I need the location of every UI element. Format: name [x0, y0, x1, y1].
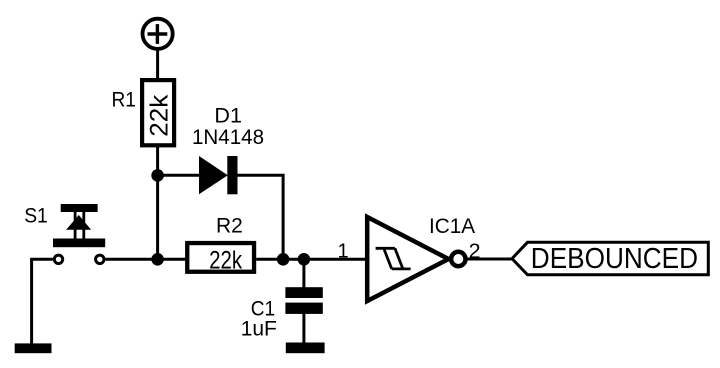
svg-text:S1: S1: [24, 203, 48, 227]
svg-text:D1: D1: [214, 104, 242, 128]
svg-text:IC1A: IC1A: [429, 214, 476, 238]
svg-text:1uF: 1uF: [241, 317, 277, 341]
svg-text:R2: R2: [216, 214, 243, 238]
svg-text:2: 2: [469, 239, 481, 263]
svg-text:1: 1: [337, 240, 348, 262]
svg-text:1N4148: 1N4148: [192, 125, 264, 149]
svg-text:22k: 22k: [146, 94, 174, 137]
svg-text:22k: 22k: [209, 247, 242, 275]
svg-text:R1: R1: [111, 87, 136, 111]
svg-text:DEBOUNCED: DEBOUNCED: [531, 243, 698, 275]
